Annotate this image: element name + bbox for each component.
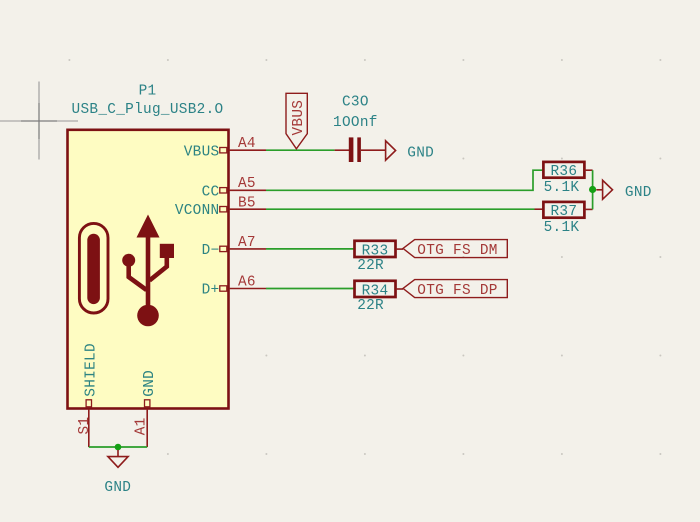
wire SHIELD/GND bottom xyxy=(89,446,147,448)
junction (R36/R37/GND) xyxy=(589,186,596,193)
global label OTG_FS_DP xyxy=(403,280,507,299)
svg-text:OTG FS DP: OTG FS DP xyxy=(417,283,497,299)
svg-text:5.1K: 5.1K xyxy=(544,180,580,196)
svg-text:5.1K: 5.1K xyxy=(544,220,580,236)
svg-text:A7: A7 xyxy=(238,235,256,251)
pin B5 VCONN xyxy=(175,195,266,219)
global label OTG_FS_DM xyxy=(403,240,507,259)
USB logo graphic xyxy=(79,215,174,327)
svg-text:CC: CC xyxy=(202,184,220,200)
svg-text:R34: R34 xyxy=(362,283,389,299)
pin A4 VBUS xyxy=(184,136,266,160)
svg-text:USB_C_Plug_USB2.O: USB_C_Plug_USB2.O xyxy=(72,102,224,118)
svg-text:C3O: C3O xyxy=(342,94,369,110)
svg-text:R33: R33 xyxy=(362,243,389,259)
capacitor C30 xyxy=(335,137,386,162)
svg-text:GND: GND xyxy=(104,480,131,496)
resistor R34 xyxy=(355,281,404,300)
ground symbol GND (bottom) xyxy=(104,450,131,496)
power flag VBUS xyxy=(286,93,307,149)
svg-text:GND: GND xyxy=(407,146,434,162)
pin A6 D+ xyxy=(202,275,266,299)
svg-text:A1: A1 xyxy=(134,417,150,435)
svg-text:D+: D+ xyxy=(202,283,220,299)
junction (bottom GND) xyxy=(115,444,122,451)
ground symbol GND (after C30) xyxy=(386,141,435,162)
wire CC to R36 xyxy=(266,170,543,190)
wire VBUS xyxy=(266,149,335,151)
wire R36 to R37 vertical xyxy=(592,170,594,209)
pin A7 D- xyxy=(202,235,266,259)
svg-text:VCONN: VCONN xyxy=(175,203,220,219)
svg-text:A4: A4 xyxy=(238,136,256,152)
svg-text:SHIELD: SHIELD xyxy=(83,343,99,397)
svg-text:GND: GND xyxy=(142,370,158,397)
svg-text:VBUS: VBUS xyxy=(291,100,307,136)
svg-text:D−: D− xyxy=(202,243,220,259)
svg-text:P1: P1 xyxy=(139,84,157,100)
svg-text:R36: R36 xyxy=(550,164,577,180)
svg-text:OTG FS DM: OTG FS DM xyxy=(417,243,497,259)
svg-text:GND: GND xyxy=(625,185,652,201)
svg-text:B5: B5 xyxy=(238,195,256,211)
connector P1 body xyxy=(68,130,229,409)
resistor R36 xyxy=(543,162,592,180)
svg-text:S1: S1 xyxy=(77,417,93,435)
pin S1 SHIELD xyxy=(77,343,100,447)
ground symbol GND (right) xyxy=(596,180,651,201)
wire D+ to R34 xyxy=(266,288,354,290)
svg-text:R37: R37 xyxy=(550,204,577,220)
pin A1 GND xyxy=(134,370,159,447)
svg-text:22R: 22R xyxy=(357,298,384,314)
svg-text:A6: A6 xyxy=(238,275,256,291)
resistor R33 xyxy=(355,241,404,259)
svg-text:A5: A5 xyxy=(238,176,256,192)
svg-text:1OOnf: 1OOnf xyxy=(333,115,378,131)
pin A5 CC xyxy=(202,176,266,200)
svg-text:VBUS: VBUS xyxy=(184,144,220,160)
wire D- to R33 xyxy=(266,248,354,250)
wire VCONN to R37 xyxy=(266,208,535,210)
svg-text:22R: 22R xyxy=(357,258,384,274)
resistor R37 xyxy=(543,202,592,220)
